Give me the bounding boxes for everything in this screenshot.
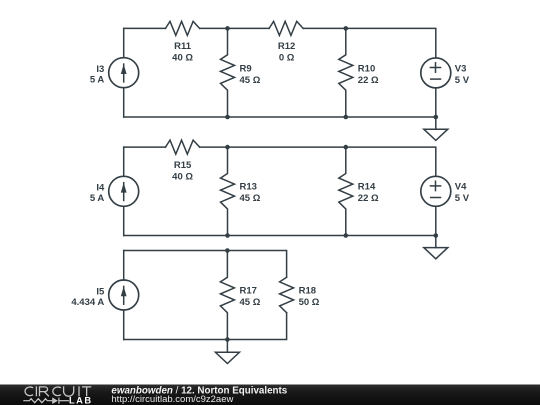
svg-text:V4: V4 — [455, 182, 467, 193]
wire C2 right rail bottom — [435, 206, 437, 235]
svg-text:R10: R10 — [358, 63, 375, 74]
svg-text:4.434 A: 4.434 A — [71, 297, 104, 308]
resistor R11 — [166, 21, 200, 35]
svg-text:40 Ω: 40 Ω — [172, 53, 193, 64]
resistor R10 — [339, 28, 353, 117]
svg-text:R18: R18 — [299, 286, 316, 297]
wire C3 top rail — [124, 251, 287, 278]
CircuitLab logo CIRCUIT lettering — [25, 386, 91, 396]
svg-text:22 Ω: 22 Ω — [358, 75, 379, 86]
svg-text:R14: R14 — [358, 182, 376, 193]
junction C1 top at R10 — [344, 26, 349, 31]
svg-text:I5: I5 — [96, 287, 105, 298]
svg-text:I3: I3 — [96, 64, 104, 75]
svg-text:22 Ω: 22 Ω — [358, 193, 379, 204]
wire C2 bottom rail — [124, 235, 436, 237]
svg-text:V3: V3 — [455, 63, 467, 74]
resistor R13 — [221, 147, 235, 235]
ground G1 — [424, 117, 448, 140]
voltage source V3 — [421, 58, 451, 88]
junction C3 top at R17 — [225, 248, 230, 253]
resistor R15 — [166, 140, 200, 154]
svg-text:45 Ω: 45 Ω — [240, 75, 261, 86]
resistor R18 — [280, 277, 294, 312]
wire C1 bottom rail — [124, 116, 436, 118]
svg-text:R13: R13 — [240, 182, 257, 193]
svg-text:40 Ω: 40 Ω — [172, 171, 193, 182]
current source I3 — [109, 58, 139, 88]
svg-text:0 Ω: 0 Ω — [279, 53, 295, 64]
wire C2 left rail bottom — [123, 206, 125, 235]
wire C1 top rail segment 2 — [200, 27, 269, 29]
ground G2 — [424, 236, 448, 259]
svg-text:http://circuitlab.com/c9z2aew: http://circuitlab.com/c9z2aew — [111, 394, 233, 405]
junction C2 bottom at R13 — [225, 233, 230, 238]
resistor R17 — [220, 251, 234, 340]
svg-text:5 A: 5 A — [90, 193, 105, 204]
svg-text:5 V: 5 V — [455, 193, 470, 204]
svg-text:45 Ω: 45 Ω — [240, 297, 261, 308]
svg-text:5 V: 5 V — [455, 75, 470, 86]
svg-text:45 Ω: 45 Ω — [240, 193, 261, 204]
resistor R14 — [339, 147, 353, 235]
wire C1 right rail bottom — [435, 88, 437, 117]
wire C3 bottom rail — [124, 313, 287, 340]
CircuitLab logo resistor zigzag and diode — [23, 397, 69, 404]
wire C2 left rail top — [123, 147, 125, 176]
svg-text:R9: R9 — [240, 63, 252, 74]
svg-text:R17: R17 — [240, 286, 257, 297]
svg-text:50 Ω: 50 Ω — [299, 297, 320, 308]
wire C3 left rail bottom — [123, 310, 125, 340]
svg-text:R15: R15 — [174, 160, 192, 171]
resistor R9 — [221, 28, 235, 117]
resistor R12 — [269, 21, 303, 35]
wire C1 top rail segment 3 — [304, 28, 436, 58]
wire C1 left rail top — [123, 28, 125, 57]
current source I5 — [109, 280, 139, 310]
wire C1 left rail bottom — [123, 88, 125, 117]
svg-text:LAB: LAB — [69, 395, 93, 405]
junction C2 bottom at V4 — [434, 233, 439, 238]
junction C2 top at R14 — [344, 145, 349, 150]
svg-text:5 A: 5 A — [90, 75, 105, 86]
ground G3 — [215, 340, 239, 364]
junction C2 bottom at R14 — [344, 233, 349, 238]
junction C2 top at R13 — [225, 145, 230, 150]
wire C2 top rail segment 2 — [200, 147, 436, 176]
current source I4 — [109, 176, 139, 206]
svg-text:R12: R12 — [278, 41, 295, 52]
junction C1 bottom at R9 — [225, 115, 230, 120]
wire C3 left rail top — [123, 251, 125, 281]
footer bar — [0, 385, 540, 405]
junction C1 top at R9 — [225, 26, 230, 31]
wire C2 top rail segment 1 — [124, 146, 166, 148]
junction C1 bottom at R10 — [344, 115, 349, 120]
junction C1 bottom at V3 — [434, 115, 439, 120]
wire C1 top rail segment 1 — [124, 27, 166, 29]
junction C3 bottom at R17 — [225, 337, 230, 342]
svg-text:I4: I4 — [96, 183, 105, 194]
svg-text:R11: R11 — [174, 41, 192, 52]
voltage source V4 — [421, 176, 451, 206]
